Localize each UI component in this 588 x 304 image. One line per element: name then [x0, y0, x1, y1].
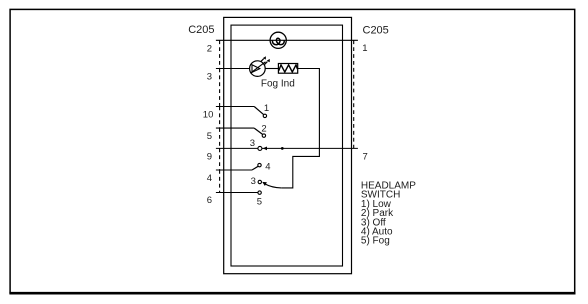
svg-text:2: 2 [207, 43, 212, 54]
wire pin 2 to lamp to pin 1 [216, 39, 358, 41]
svg-text:4: 4 [265, 162, 270, 173]
switch contact 1 [263, 114, 266, 117]
junction dot [281, 147, 284, 150]
switch contact 2 [262, 134, 265, 137]
headlamp switch inner box [231, 25, 343, 266]
wire pin 9 common line to pin 7 [216, 147, 358, 149]
wire pin 10 to contact 1 [216, 107, 264, 115]
svg-text:3: 3 [207, 72, 212, 83]
svg-text:2: 2 [261, 124, 266, 135]
wire LED to resistor [265, 68, 278, 70]
svg-text:C205: C205 [188, 24, 214, 36]
svg-text:5: 5 [257, 196, 262, 207]
switch contact 5 [258, 191, 261, 194]
wiper arrow lower [262, 182, 267, 186]
svg-text:1: 1 [264, 103, 269, 114]
svg-text:9: 9 [207, 152, 212, 163]
wire pin 4 to contact 4 [216, 166, 258, 170]
headlamp switch legend text [361, 181, 416, 247]
wire pin 6 to contact 5 [216, 192, 258, 194]
svg-text:Fog Ind: Fog Ind [261, 79, 295, 90]
wire pin 3 to LED [216, 68, 250, 70]
LED D1 Fog Ind [250, 56, 270, 76]
connector C205 right dashed line [353, 40, 355, 148]
wire resistor to corner and down [281, 69, 319, 188]
wiper arrow on common line [263, 147, 267, 151]
switch contact 4 [258, 163, 261, 166]
svg-text:5: 5 [207, 131, 212, 142]
svg-text:7: 7 [363, 152, 368, 163]
svg-text:1: 1 [362, 43, 367, 54]
svg-text:C205: C205 [363, 25, 389, 37]
svg-text:3: 3 [251, 176, 256, 187]
switch contact 3 (wiper position) [258, 146, 262, 150]
wire pin 5 to contact 2 [216, 128, 263, 134]
svg-text:10: 10 [203, 109, 214, 120]
switch contact 3 lower (fog pole) [258, 180, 261, 183]
wiper curve to step wire [265, 184, 281, 188]
connector C205 left dashed line [219, 40, 221, 192]
headlamp switch outer box [224, 17, 352, 273]
resistor R1 [278, 64, 297, 74]
svg-text:3: 3 [250, 138, 255, 149]
svg-text:5) Fog: 5) Fog [361, 236, 390, 247]
lamp L1 (illumination bulb) [270, 32, 286, 48]
svg-text:6: 6 [207, 195, 212, 206]
svg-text:4: 4 [207, 173, 212, 184]
